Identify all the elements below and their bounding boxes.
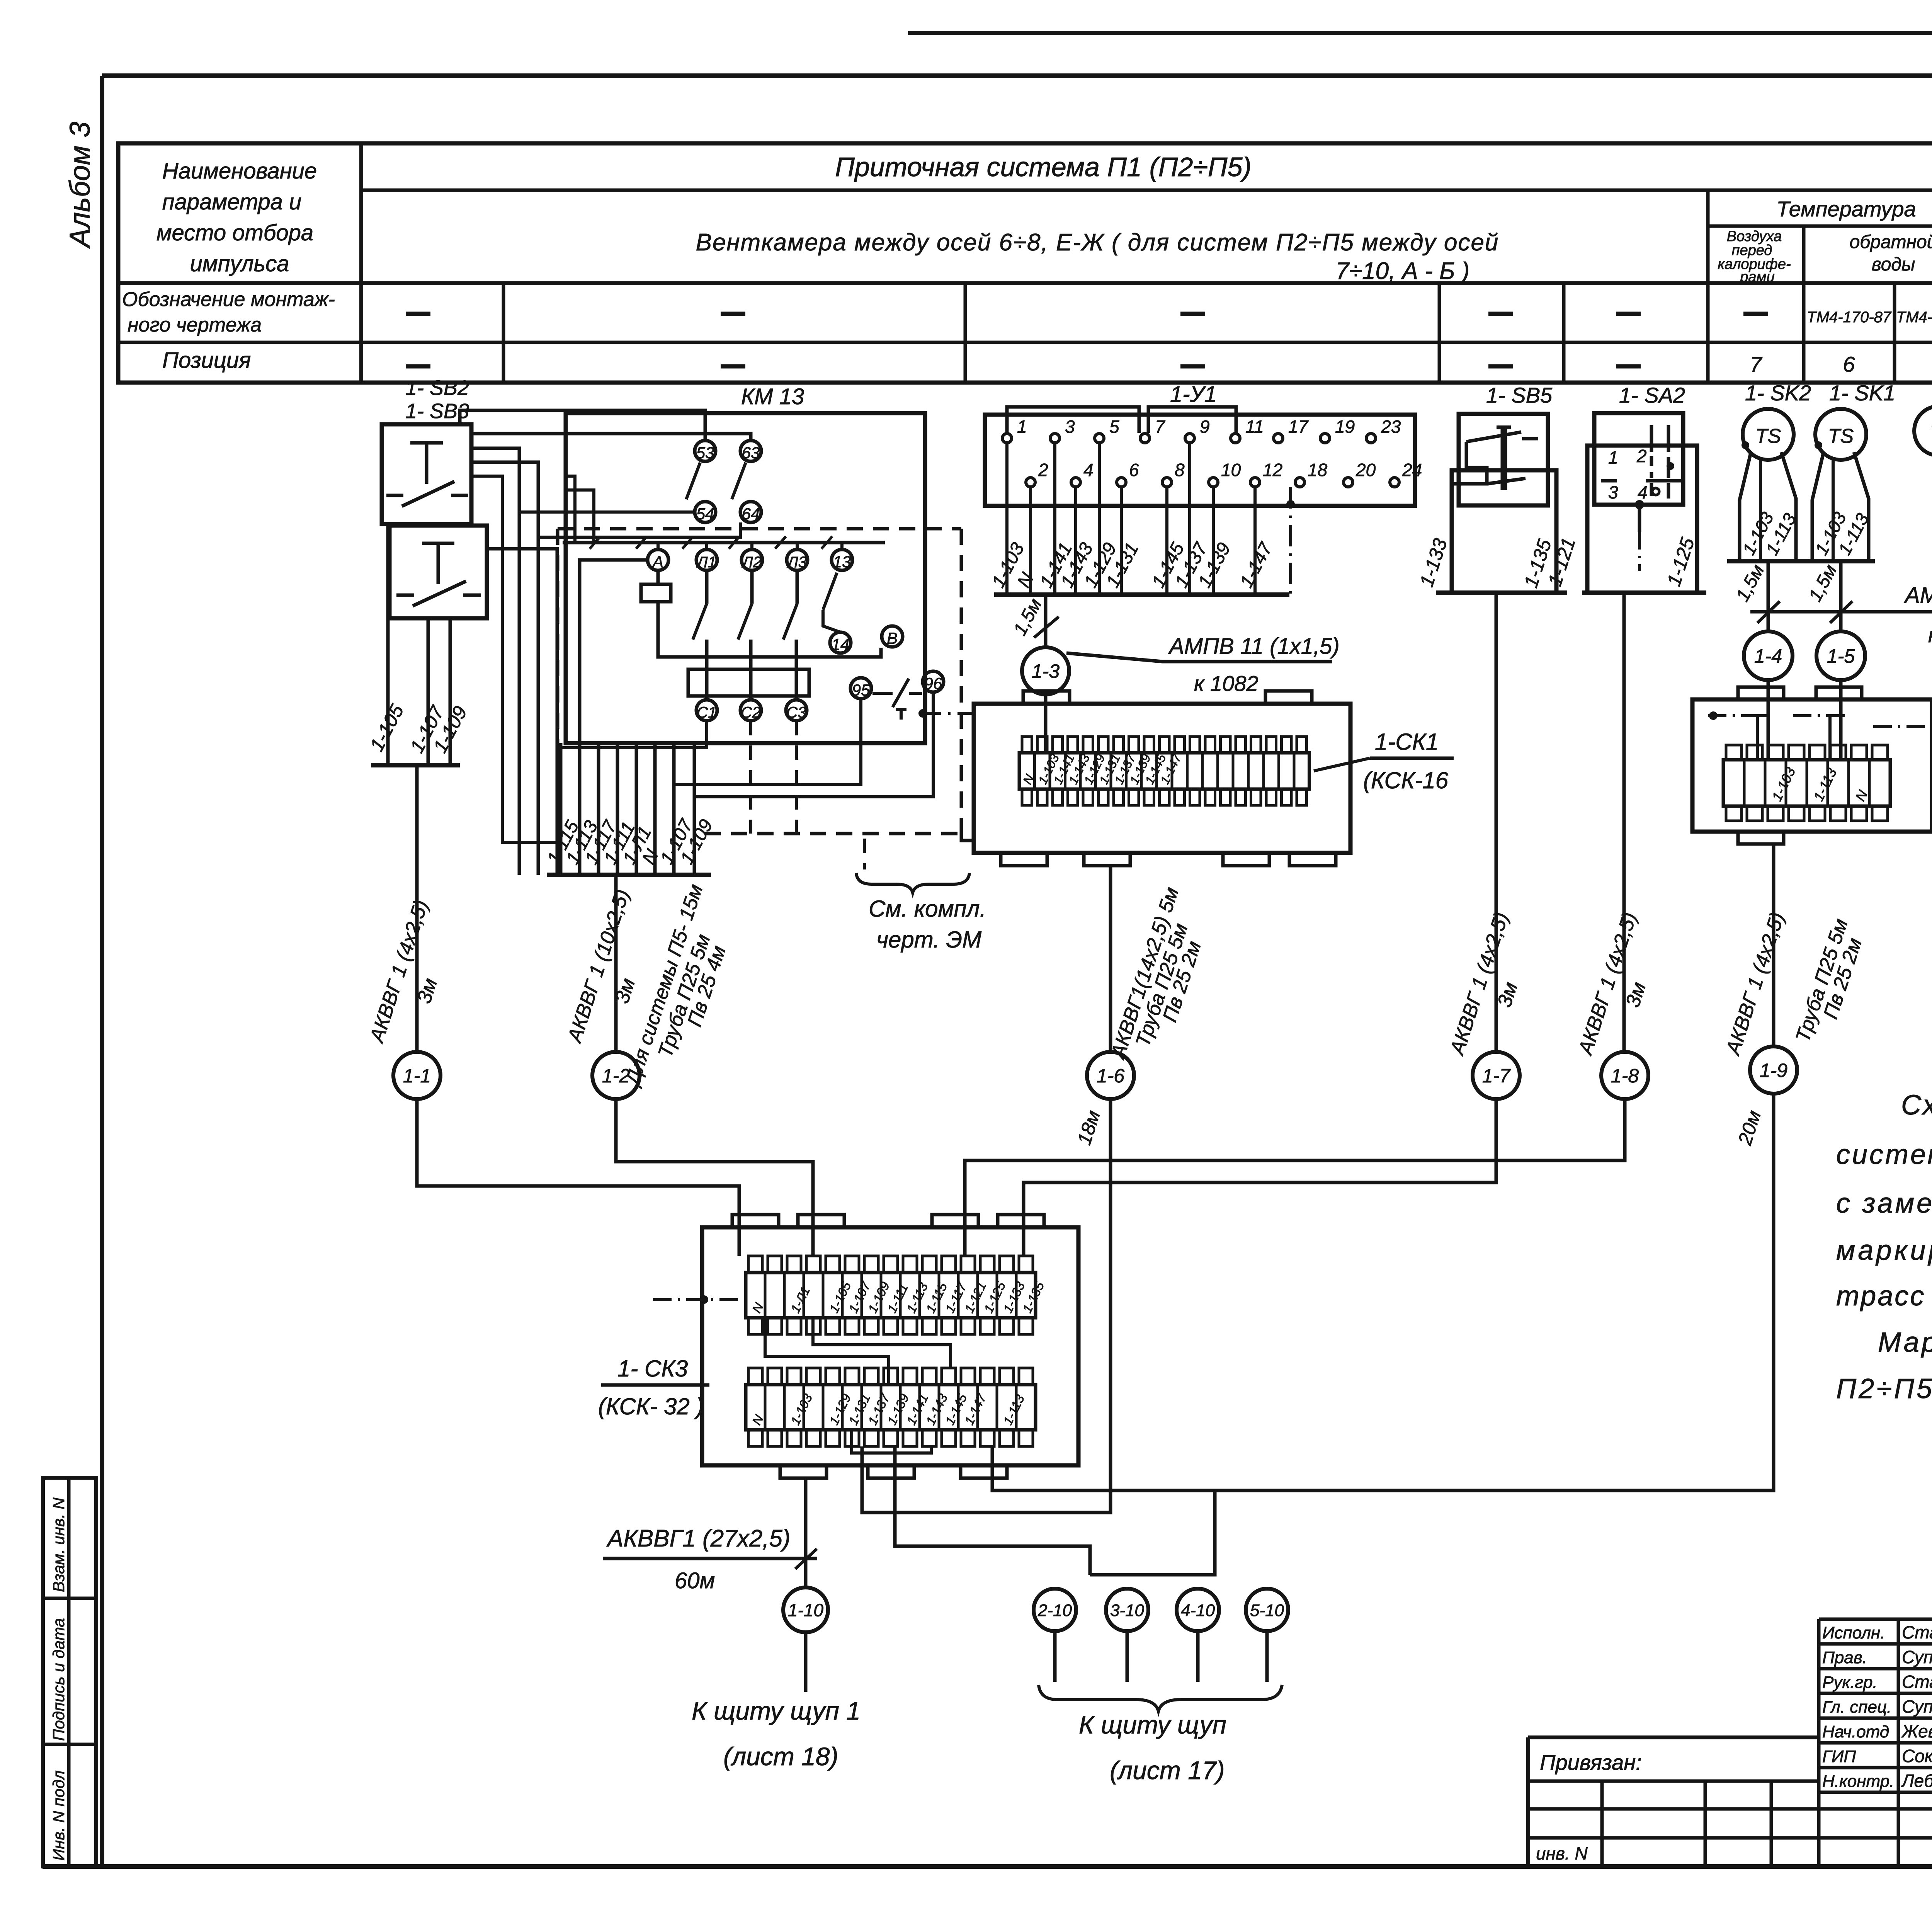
svg-text:АКВВГ1 (27х2,5): АКВВГ1 (27х2,5) [606, 1525, 790, 1552]
svg-text:5-10: 5-10 [1250, 1601, 1284, 1620]
svg-text:рами: рами [1740, 269, 1774, 285]
svg-text:Взам. инв. N: Взам. инв. N [49, 1497, 68, 1592]
svg-text:18: 18 [1308, 460, 1328, 480]
title block staff table [1819, 1619, 1932, 1866]
AMPV 3 route line [1750, 583, 1932, 647]
svg-text:(лист 17): (лист 17) [1110, 1756, 1225, 1785]
svg-text:(КСК-16: (КСК-16 [1363, 767, 1449, 793]
dashed stub below box [863, 839, 866, 869]
svg-text:1-1: 1-1 [403, 1065, 431, 1087]
svg-text:Соколовский: Соколовский [1902, 1746, 1932, 1766]
KM13 aux contact 63 [740, 441, 761, 462]
SA2 wire labels [1544, 535, 1699, 589]
sensor 1-SK1 bulb [1815, 409, 1866, 460]
SB5 body outline [1452, 470, 1556, 593]
wire to 1-2 [614, 875, 618, 1052]
svg-text:7: 7 [1155, 417, 1165, 437]
explanatory note paragraph [1836, 1090, 1932, 1404]
label 1-CK1 [1314, 729, 1454, 793]
svg-text:С1: С1 [697, 704, 716, 721]
svg-text:параметра и: параметра и [162, 189, 302, 214]
KM13 terminal 14 [830, 632, 851, 653]
svg-text:импульса: импульса [190, 251, 289, 276]
svg-text:6: 6 [1843, 352, 1855, 376]
svg-text:с заменой в обозначении пр: с заменой в обозначении приборов, аппара… [1836, 1188, 1932, 1219]
KM13 terminal 95 [850, 678, 871, 699]
svg-text:Л1: Л1 [696, 554, 716, 571]
privyazan block [1528, 1737, 1932, 1866]
KM13 terminal L1 [696, 550, 717, 571]
svg-text:1- СК3: 1- СК3 [617, 1356, 688, 1382]
KM13 terminal L3 [786, 550, 808, 571]
wire SA2 to 1-8 [1622, 593, 1626, 1052]
svg-text:1-5: 1-5 [1827, 645, 1855, 667]
svg-text:53: 53 [696, 444, 714, 462]
svg-text:1- SK1: 1- SK1 [1829, 381, 1895, 405]
note K shchitu 2 [1079, 1710, 1226, 1785]
bus slanted labels [543, 815, 717, 868]
wire 1-10 stub [804, 1632, 808, 1692]
wire coil return to B [658, 602, 881, 657]
svg-text:черт. ЭМ: черт. ЭМ [876, 927, 981, 953]
note K shchitu 1 [692, 1696, 861, 1771]
svg-text:7: 7 [1750, 352, 1762, 376]
svg-text:60м: 60м [675, 1568, 715, 1593]
KM13 terminal B [882, 626, 903, 647]
wire SK1 to 1-5 [1839, 561, 1843, 631]
svg-text:11: 11 [1245, 417, 1264, 437]
svg-text:С2: С2 [741, 704, 760, 721]
wire U1 to 1-3 [1044, 595, 1048, 647]
svg-text:Рук.гр.: Рук.гр. [1822, 1673, 1878, 1692]
pushbutton 1-SB3 [389, 526, 487, 618]
trunk bubble 3-10 [1106, 1589, 1148, 1631]
wire SB bundle into KM13 nest 1 [471, 448, 519, 875]
svg-text:14: 14 [832, 635, 850, 653]
wire 1-3 to CK1 [1044, 694, 1048, 753]
svg-text:инв. N: инв. N [1536, 1843, 1588, 1863]
cable labels 1-9 [1721, 910, 1866, 1148]
svg-text:АКВВГ 1 (10х2,5): АКВВГ 1 (10х2,5) [563, 886, 634, 1046]
svg-text:П2÷П5 см. таблицу примен: П2÷П5 см. таблицу применимости - лист 8. [1836, 1373, 1932, 1404]
wire 1-107 [427, 618, 430, 765]
trunk bubble 1-3 [1022, 647, 1069, 694]
label 1-CK3 [598, 1356, 709, 1419]
svg-text:Наименование: Наименование [162, 158, 317, 184]
svg-text:1-103: 1-103 [788, 1391, 815, 1427]
SB5 wire labels [1415, 536, 1556, 590]
trunk bubble 1-7 [1473, 1052, 1520, 1099]
svg-text:Жевнеров: Жевнеров [1901, 1721, 1932, 1741]
bus wires under KM13 [561, 743, 694, 875]
main contact pole 2 [738, 570, 752, 700]
svg-text:АМПВ 3 (1х1.5): АМПВ 3 (1х1.5) [1904, 583, 1932, 608]
main contact pole 3 [783, 570, 797, 700]
svg-text:1- SB5: 1- SB5 [1486, 383, 1553, 407]
cable labels 1-2 [563, 881, 730, 1089]
wire SB bundle into KM13 nest 3 [487, 549, 557, 875]
svg-text:2-10: 2-10 [1037, 1601, 1072, 1620]
stubs under bubbles [1055, 1631, 1267, 1682]
table dash cells row 1 [406, 309, 1932, 326]
table dash cells row 2 [406, 352, 1932, 376]
svg-text:Маркировки магнитных пускате: Маркировки магнитных пускателей для сист… [1878, 1327, 1932, 1358]
trunk bubble 4-10 [1177, 1589, 1219, 1631]
terminal C3 [786, 700, 807, 721]
callout AMPV 11 [1066, 634, 1340, 696]
svg-text:См. компл.: См. компл. [869, 896, 986, 922]
contact blade 63-64 [732, 463, 746, 499]
CK2 dash-dot stubs [1708, 711, 1932, 731]
svg-text:1- SK2: 1- SK2 [1745, 381, 1811, 405]
spare sensor TI [1914, 406, 1932, 456]
cable labels 1-8 [1574, 910, 1650, 1058]
svg-text:10: 10 [1221, 460, 1241, 480]
svg-text:воды: воды [1872, 254, 1915, 275]
wire from 1-7 to SK3 [1024, 1099, 1496, 1256]
wire CK3 to 1-10 [804, 1478, 808, 1588]
trunk bubble 1-9 [1750, 1046, 1797, 1094]
svg-text:2: 2 [1038, 460, 1048, 480]
KM13 supply rail [563, 536, 885, 549]
svg-text:5: 5 [1109, 417, 1119, 437]
wire SK2 to 1-4 [1767, 561, 1770, 631]
pushbutton 1-SB2 [382, 424, 471, 524]
contact blade 53-54 [686, 463, 700, 499]
dashed drop C3 [795, 721, 798, 834]
trunk bubble 1-4 [1744, 631, 1793, 680]
wire 1-105 [386, 524, 390, 765]
cable labels 1-7 [1446, 910, 1522, 1058]
svg-text:3: 3 [1065, 417, 1075, 437]
KM13 terminal L2 [741, 550, 762, 571]
tick on wire [1034, 617, 1059, 638]
cable head bar U1 [994, 592, 1289, 597]
svg-text:1-6: 1-6 [1097, 1065, 1124, 1087]
svg-text:1-147: 1-147 [1236, 539, 1277, 591]
svg-text:1- SA2: 1- SA2 [1619, 383, 1685, 407]
wire CK1 to 1-6 [1109, 866, 1112, 1052]
svg-text:Нач.отд: Нач.отд [1822, 1722, 1889, 1741]
svg-text:3: 3 [1608, 482, 1618, 502]
trunk bubble 1-5 [1816, 631, 1865, 680]
svg-text:1-2: 1-2 [602, 1065, 630, 1087]
KM13 coil [641, 570, 671, 602]
svg-text:3-10: 3-10 [1110, 1601, 1145, 1620]
terminal C1 [696, 700, 717, 721]
svg-text:Приточная система П1 (П2÷П5): Приточная система П1 (П2÷П5) [835, 152, 1252, 182]
svg-text:4-10: 4-10 [1181, 1601, 1215, 1620]
U1 jumper wire 1 to 7 [1007, 407, 1139, 434]
wires SB to KM13 coil contacts [460, 410, 705, 441]
CK1 terminal strip [1019, 737, 1310, 805]
nest inner rail 2 [566, 490, 594, 543]
svg-text:1-Л1: 1-Л1 [788, 1285, 813, 1315]
wire to 1-1 [415, 765, 419, 1052]
svg-text:Позиция: Позиция [162, 348, 251, 373]
U1 terminals odd row [1002, 417, 1401, 443]
svg-text:TI: TI [1930, 422, 1932, 444]
aux contact 13-14 blade [823, 573, 837, 610]
svg-text:ТМ4-144-87.: ТМ4-144-87. [1896, 309, 1932, 326]
svg-text:23: 23 [1381, 417, 1401, 437]
jog 95 to bus [674, 699, 861, 784]
wires 1-4 1-5 into CK2 [1757, 680, 1841, 760]
wire A feed [580, 560, 648, 743]
svg-text:1: 1 [1608, 447, 1618, 468]
svg-text:N: N [749, 1412, 766, 1427]
jog 96 to bus [694, 692, 933, 797]
cable head bar SA2 [1582, 590, 1706, 595]
trunk bubble 1-1 [393, 1052, 440, 1099]
wire 1-109 [449, 618, 452, 765]
trunk bubble 1-6 [1087, 1052, 1134, 1099]
nest inner rail 1 [566, 476, 575, 543]
svg-text:АМПВ 11 (1х1,5): АМПВ 11 (1х1,5) [1168, 634, 1340, 659]
U1 junction dot [1286, 500, 1295, 509]
main contact pole 1 [693, 570, 707, 700]
svg-text:20м: 20м [1734, 1108, 1765, 1148]
svg-text:63: 63 [742, 444, 760, 462]
pushbutton 1-SB5 [1454, 414, 1548, 505]
U1 jumper wire 7 to 11 [1148, 407, 1236, 434]
wire from 1-6 to SK3 bottom [862, 1099, 1111, 1513]
wire from 1-9 to SK3 bottom [992, 1094, 1774, 1490]
SA2 dash-dot drop [1638, 505, 1641, 571]
svg-text:64: 64 [742, 505, 760, 523]
svg-text:1-10: 1-10 [788, 1600, 823, 1620]
svg-text:1-8: 1-8 [1611, 1065, 1639, 1087]
svg-text:1-133: 1-133 [1415, 536, 1451, 589]
svg-text:ного чертежа: ного чертежа [128, 314, 262, 336]
svg-text:Венткамера между осе: Венткамера между осей 6÷8, Е-Ж ( для сис… [696, 229, 1499, 256]
svg-text:3м: 3м [1621, 979, 1650, 1010]
svg-text:Л3: Л3 [786, 554, 807, 571]
left stamp column boxes [43, 1478, 96, 1866]
cable head bar SB [371, 763, 460, 767]
overload trip contact [872, 679, 922, 720]
sheet outer top edge line [908, 31, 1932, 35]
svg-text:1-105: 1-105 [366, 701, 408, 755]
svg-text:трасс индекса 1 на индек: трасс индекса 1 на индексы 2÷S. [1836, 1281, 1932, 1312]
rail drops to terminals [658, 543, 842, 550]
SK2 cable bundle [1727, 452, 1802, 561]
svg-text:Лебская: Лебская [1901, 1771, 1932, 1791]
svg-text:1-7: 1-7 [1482, 1065, 1511, 1087]
svg-text:системы П1. Для систем П2÷П: системы П1. Для систем П2÷П5 схема анало… [1836, 1139, 1932, 1170]
svg-text:Подпись и дата: Подпись и дата [49, 1618, 68, 1741]
wire 14 to B [823, 610, 840, 632]
terminal box 1-CK1 [974, 691, 1350, 866]
svg-text:2: 2 [1636, 446, 1647, 466]
CK2 terminal strip [1723, 745, 1890, 821]
wire 54 to nest [519, 510, 695, 514]
svg-text:(лист 18): (лист 18) [723, 1742, 838, 1771]
contactor KM13 enclosure [566, 413, 925, 743]
brace under stubs [1039, 1685, 1282, 1711]
svg-text:TS: TS [1828, 425, 1854, 447]
junction box 1-U1 [985, 415, 1415, 506]
svg-text:24: 24 [1402, 460, 1422, 480]
SK1 cable bundle [1801, 452, 1875, 561]
svg-text:АКВВГ 1 (4х2,5): АКВВГ 1 (4х2,5) [365, 897, 432, 1046]
svg-text:1-3: 1-3 [1032, 660, 1060, 682]
CK3 dash-dot stub [653, 1295, 746, 1304]
svg-text:Прав.: Прав. [1822, 1648, 1867, 1667]
svg-text:4: 4 [1083, 460, 1094, 480]
svg-text:1-9: 1-9 [1760, 1060, 1787, 1081]
svg-text:Старицына: Старицына [1902, 1672, 1932, 1692]
svg-text:С3: С3 [786, 704, 806, 721]
svg-text:к 1082: к 1082 [1928, 624, 1932, 647]
staff rows text [1822, 1622, 1932, 1791]
svg-text:Схема внешних проводок: Схема внешних проводок выполнена для [1901, 1090, 1932, 1121]
svg-text:Супруново: Супруново [1902, 1696, 1932, 1717]
svg-text:(КСК- 32 ): (КСК- 32 ) [598, 1393, 704, 1419]
jog C1 to bus [561, 721, 707, 748]
svg-text:1,5м: 1,5м [1805, 561, 1841, 605]
trunk bubble 1-2 [592, 1052, 639, 1099]
wire from 1-1 down and right to SK3 [417, 1099, 739, 1256]
svg-text:20: 20 [1355, 460, 1376, 480]
terminal C2 [740, 700, 761, 721]
svg-text:1-4: 1-4 [1754, 645, 1782, 667]
cable labels 1-6 [1073, 885, 1206, 1148]
terminal box 1-CK2 [1692, 687, 1932, 844]
svg-text:1-У1: 1-У1 [1170, 382, 1217, 407]
dashed drop C2 [749, 721, 752, 834]
svg-text:КМ 13: КМ 13 [741, 384, 804, 409]
svg-text:ТМ4-170-87: ТМ4-170-87 [1807, 309, 1892, 326]
KM13 terminal 96 [923, 671, 944, 692]
svg-text:Старицына: Старицына [1902, 1622, 1932, 1642]
svg-text:N: N [749, 1300, 766, 1315]
svg-text:1- SB2: 1- SB2 [405, 376, 469, 400]
svg-text:1-113: 1-113 [1810, 766, 1840, 803]
CK3 bottom exit jumper [895, 1446, 1090, 1575]
tick on 1-10 wire [795, 1549, 817, 1569]
svg-text:1-СК1: 1-СК1 [1375, 729, 1439, 755]
svg-text:Супрунова: Супрунова [1902, 1647, 1932, 1667]
svg-text:54: 54 [696, 505, 714, 523]
KM13 terminal 13 [832, 550, 852, 571]
sensor 1-SK2 bulb [1742, 409, 1794, 460]
note sm kompl [856, 873, 986, 953]
dash-dot stub CK1 left [918, 709, 974, 718]
switch 1-SA2 [1587, 413, 1697, 593]
svg-text:Обозначение монтаж-: Обозначение монтаж- [122, 288, 335, 311]
svg-text:N: N [1014, 569, 1038, 591]
KM13 dashed enclosure [558, 529, 961, 834]
svg-text:АКВВГ 1 (4х2,5): АКВВГ 1 (4х2,5) [1721, 910, 1789, 1058]
svg-text:17: 17 [1288, 417, 1309, 437]
svg-text:18м: 18м [1073, 1108, 1104, 1148]
parameters table frame [118, 143, 1932, 383]
svg-text:К щиту щуп 1: К щиту щуп 1 [692, 1696, 861, 1725]
svg-text:1-125: 1-125 [1663, 535, 1699, 589]
svg-text:В: В [887, 629, 898, 647]
U1 dash-dot wire [1289, 487, 1292, 595]
CK3 lower strip [746, 1368, 1036, 1446]
trunk bubble 2-10 [1034, 1589, 1076, 1631]
CK3 internal jumpers [765, 1318, 951, 1453]
svg-text:Привязан:: Привязан: [1540, 1750, 1642, 1775]
wire SB bundle into KM13 nest 2 [471, 462, 538, 875]
svg-text:А: А [651, 553, 663, 571]
table header texts [122, 152, 1932, 373]
svg-text:6: 6 [1129, 460, 1139, 480]
svg-text:Исполн.: Исполн. [1822, 1623, 1885, 1642]
wire 96 exit corner [961, 834, 974, 840]
trunk bubble 5-10 [1246, 1589, 1288, 1631]
svg-text:TS: TS [1755, 425, 1781, 447]
svg-text:95: 95 [852, 681, 870, 699]
svg-text:8: 8 [1175, 460, 1185, 480]
SA2 junction dot [1635, 500, 1644, 509]
svg-text:Н.контр.: Н.контр. [1822, 1772, 1894, 1791]
KM13 terminal A [648, 550, 668, 571]
svg-text:1,5м: 1,5м [1732, 561, 1769, 605]
svg-text:Альбом 3: Альбом 3 [64, 122, 96, 249]
svg-text:7÷10, А - Б ): 7÷10, А - Б ) [1336, 258, 1470, 284]
svg-text:обратной: обратной [1850, 232, 1932, 252]
CK3 upper strip [746, 1256, 1047, 1334]
trunk bubble 1-10 [783, 1587, 828, 1632]
KM13 aux contact 53 [695, 441, 716, 462]
svg-text:место отбора: место отбора [156, 220, 313, 245]
svg-text:13: 13 [833, 553, 851, 571]
U1 terminals even row [1026, 460, 1422, 487]
svg-text:ГИП: ГИП [1822, 1747, 1856, 1766]
cable head bar KM13 [547, 873, 711, 877]
U1 drop wires [1007, 443, 1255, 595]
svg-text:96: 96 [924, 674, 942, 692]
svg-text:маркировок цепей управле: маркировок цепей управления и маркировок [1836, 1235, 1932, 1266]
KM13 aux contact 64 [740, 502, 761, 523]
svg-text:12: 12 [1263, 460, 1282, 480]
terminal box 1-CK3 [702, 1215, 1078, 1478]
svg-text:Температура: Температура [1776, 197, 1916, 221]
CK3 staircase jumper [1090, 1490, 1215, 1575]
wire SB bundle into KM13 nest 4 [471, 476, 561, 842]
svg-text:1-113: 1-113 [1000, 1392, 1027, 1427]
wire from 1-8 to SK3 [965, 1099, 1625, 1256]
svg-text:К щиту щуп: К щиту щуп [1079, 1710, 1226, 1739]
wire SB5 to 1-7 [1495, 593, 1498, 1052]
KM13 aux contact 54 [695, 502, 716, 523]
wire CK2 to 1-9 [1772, 844, 1776, 1046]
wire 64 to nest [538, 522, 740, 537]
cable head bar SB5 [1436, 590, 1567, 595]
svg-text:9: 9 [1200, 417, 1210, 437]
svg-text:4: 4 [1638, 482, 1648, 502]
svg-text:1-103: 1-103 [1769, 765, 1798, 804]
U1 wire labels [988, 539, 1277, 591]
trunk bubble 1-8 [1601, 1052, 1648, 1099]
cable AKVVG1 27x2.5 [603, 1525, 817, 1593]
svg-text:Инв. N подл: Инв. N подл [49, 1770, 68, 1861]
svg-text:1: 1 [1017, 417, 1027, 437]
svg-text:19: 19 [1335, 417, 1355, 437]
wire from 1-2 to SK3 [616, 1099, 813, 1256]
svg-text:Гл. спец.: Гл. спец. [1822, 1698, 1891, 1717]
svg-text:Л2: Л2 [741, 554, 762, 571]
svg-text:к 1082: к 1082 [1194, 671, 1259, 696]
thermal overload block [688, 669, 809, 696]
